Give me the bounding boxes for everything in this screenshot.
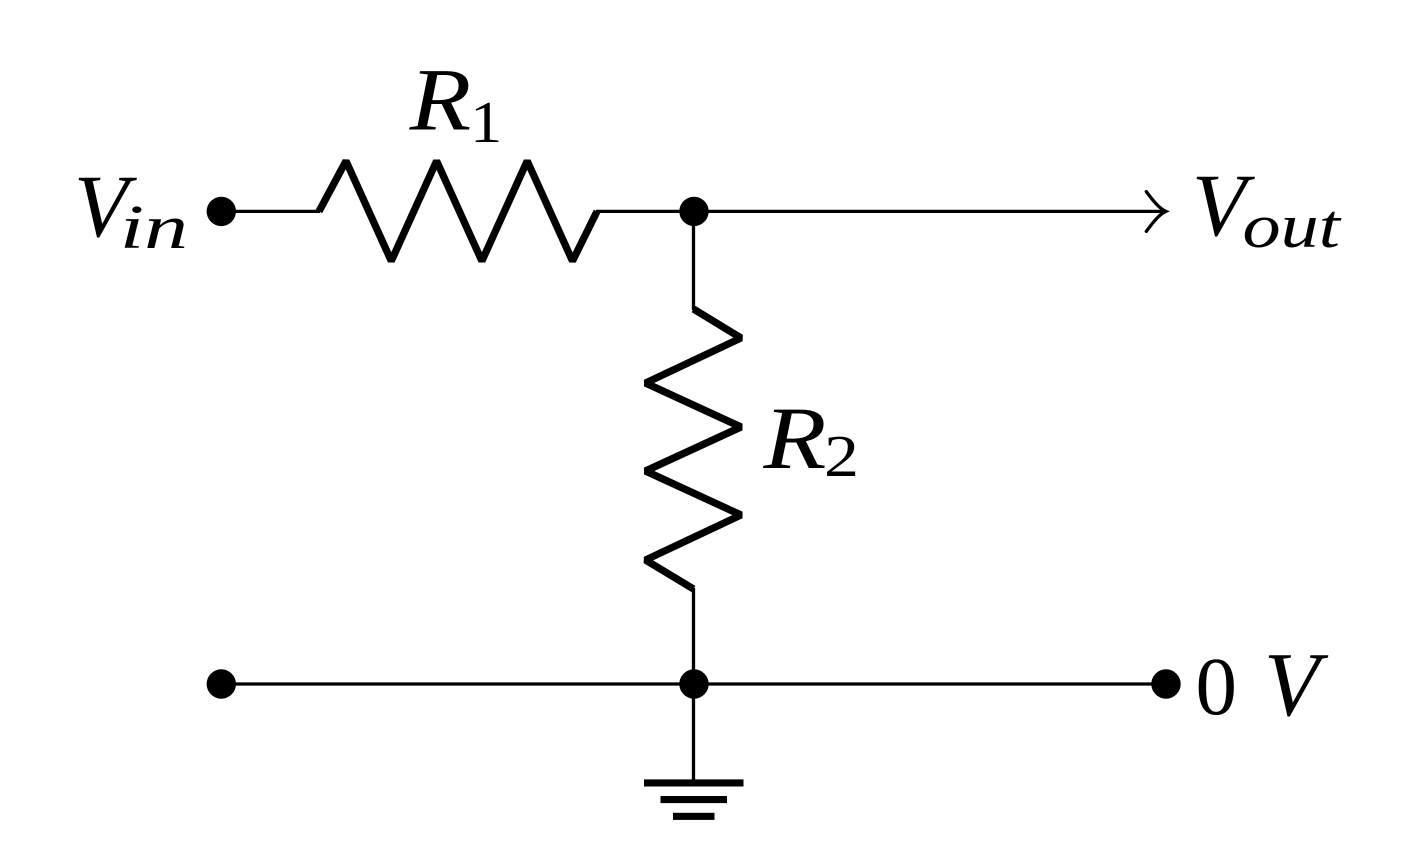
svg-text:0: 0 (1196, 640, 1238, 732)
node bottom-left terminal dot (207, 669, 236, 698)
wire R1 to Vout arrow (596, 210, 1164, 213)
svg-text:2: 2 (824, 423, 859, 489)
svg-text:R: R (762, 390, 826, 488)
wire R2 to bottom rail (692, 588, 695, 684)
svg-text:in: in (120, 194, 188, 262)
svg-text:out: out (1243, 193, 1343, 261)
wire Vin to R1 (221, 210, 320, 213)
node bottom-right terminal dot (1151, 669, 1180, 698)
node Vin terminal dot (207, 197, 236, 226)
label Vout (1192, 157, 1342, 261)
node junction top (R1/R2/Vout) (679, 197, 708, 226)
svg-text:V: V (1264, 634, 1329, 735)
resistor R2 (646, 309, 742, 589)
resistor R1 (319, 161, 597, 261)
label R1 (408, 51, 502, 155)
wire bottom rail 0V (221, 682, 1166, 685)
label 0V (1196, 634, 1330, 735)
node bottom junction (rail/ground) (679, 669, 708, 698)
wire junction to ground (692, 684, 695, 783)
svg-text:1: 1 (470, 89, 502, 155)
label Vin (74, 158, 188, 262)
svg-text:R: R (408, 51, 471, 149)
wire junction down to R2 (692, 211, 695, 310)
ground (644, 779, 744, 819)
label R2 (762, 390, 859, 489)
arrow Vout (1146, 192, 1166, 232)
